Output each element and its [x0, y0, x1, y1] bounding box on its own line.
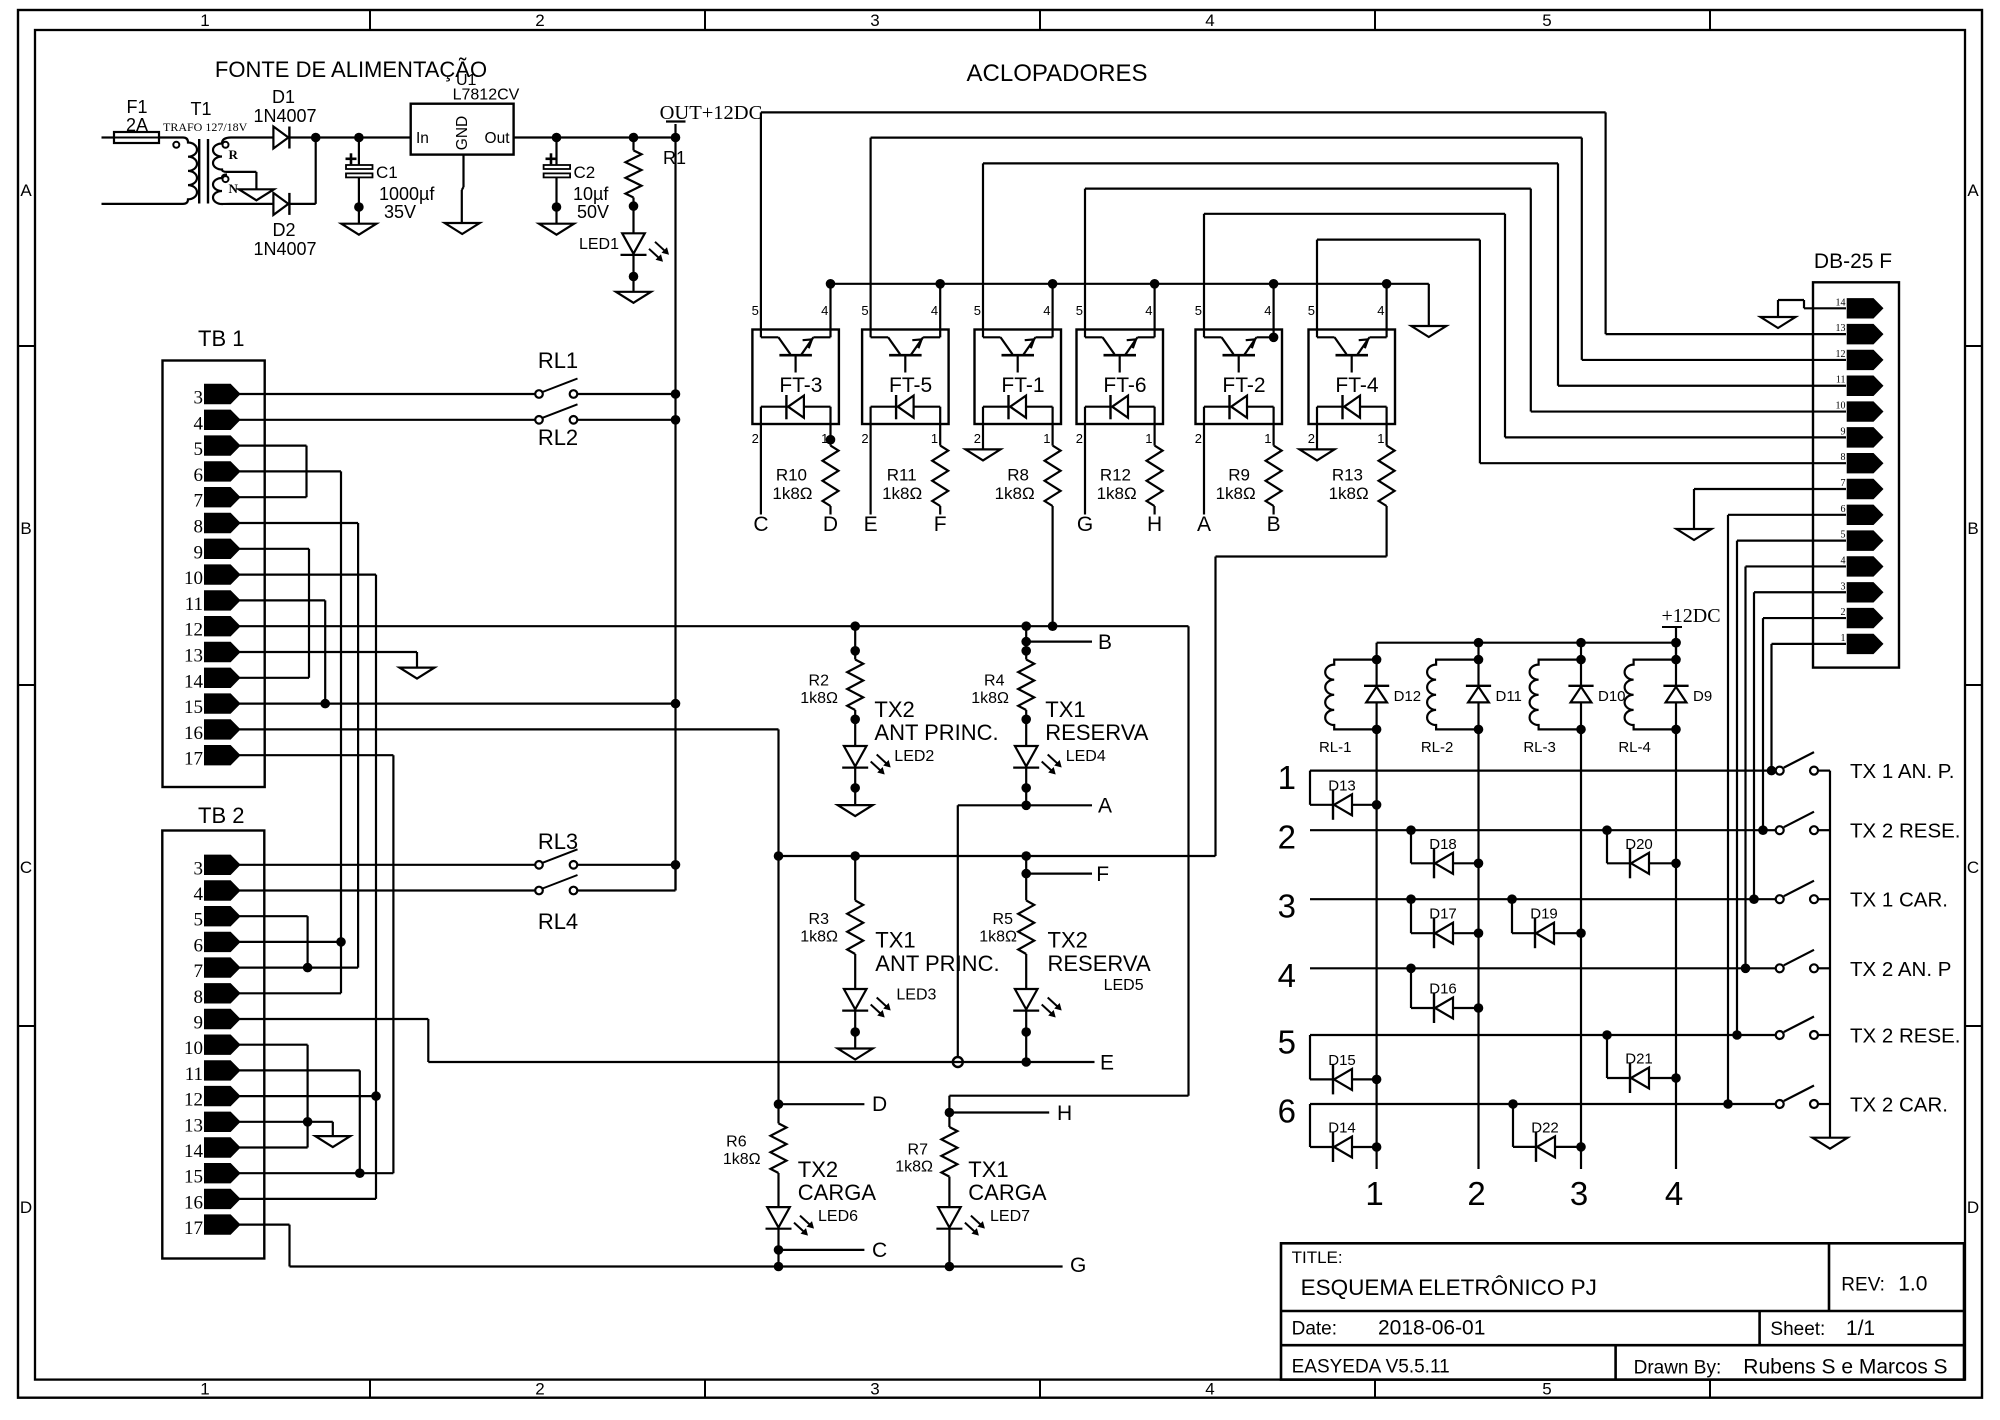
svg-text:4: 4: [931, 303, 938, 318]
relay contact RL4: [535, 887, 543, 895]
svg-text:6: 6: [1841, 504, 1846, 515]
ground LED3: [838, 1049, 873, 1060]
svg-text:1: 1: [1145, 431, 1152, 446]
wire +12DC tick down: [1675, 627, 1677, 660]
TB1 pin 7: [205, 488, 240, 507]
wire TB2 pin9 to row E: [239, 1018, 429, 1020]
wire R13 return to row R3: [1385, 506, 1387, 557]
optocoupler FT-4 transistor: [1316, 330, 1318, 338]
svg-text:2018-06-01: 2018-06-01: [1378, 1317, 1485, 1340]
DB-25 pin 5: [1847, 531, 1883, 550]
svg-text:D19: D19: [1530, 906, 1558, 923]
wire FT-3 pin 4 to bus: [829, 284, 831, 330]
switch row 2: [1776, 826, 1784, 834]
svg-text:R: R: [229, 147, 239, 162]
svg-text:GND: GND: [454, 116, 471, 150]
ground DB-25 pin 14: [1761, 317, 1796, 328]
junction unit bottom 4: [1671, 725, 1681, 735]
svg-text:RL2: RL2: [538, 425, 578, 450]
row D stub: [774, 1099, 784, 1109]
svg-text:R12: R12: [1100, 466, 1131, 485]
junction LED1 bottom: [629, 272, 639, 282]
svg-text:FT-6: FT-6: [1103, 374, 1146, 397]
junction R4 top: [1021, 621, 1031, 631]
svg-text:D: D: [1967, 1198, 1979, 1217]
svg-text:1.0: 1.0: [1898, 1273, 1927, 1296]
wire FT-3 pin 2 down: [760, 424, 762, 515]
svg-text:LED4: LED4: [1066, 748, 1106, 765]
resistor R10 1k8: [823, 446, 839, 506]
svg-text:RL4: RL4: [538, 909, 578, 934]
svg-text:Date:: Date:: [1292, 1319, 1337, 1340]
svg-text:10: 10: [184, 1038, 203, 1059]
TB2 pin 17: [205, 1215, 240, 1234]
svg-text:4: 4: [1377, 303, 1384, 318]
svg-text:EASYEDA V5.5.11: EASYEDA V5.5.11: [1292, 1357, 1450, 1378]
wire RL1 to +12 rail: [577, 393, 676, 395]
diode D17: [1410, 899, 1412, 933]
wire FT-1 pin 1 down: [1051, 424, 1053, 446]
TB2 pin 5: [205, 907, 240, 926]
junction D14 column: [1372, 1142, 1382, 1152]
svg-text:5: 5: [861, 303, 868, 318]
svg-text:RL3: RL3: [538, 829, 578, 854]
svg-text:C: C: [1967, 858, 1979, 877]
junction D17 row 3: [1406, 894, 1416, 904]
led LED7: [938, 1207, 961, 1227]
diode D1 1N4007: [273, 127, 288, 149]
svg-text:1k8Ω: 1k8Ω: [772, 484, 812, 503]
diode D16: [1410, 968, 1412, 1008]
svg-text:CARGA: CARGA: [798, 1180, 877, 1205]
svg-text:A: A: [20, 181, 32, 200]
svg-text:3: 3: [1278, 888, 1296, 925]
junction R1/LED1: [629, 201, 639, 211]
svg-text:13: 13: [184, 1115, 203, 1136]
svg-text:RL-2: RL-2: [1421, 739, 1454, 756]
optocoupler FT-2 pin 2 internal lead: [1203, 407, 1205, 424]
svg-text:REV:: REV:: [1841, 1275, 1885, 1296]
svg-text:B: B: [20, 519, 31, 538]
ground U1: [445, 223, 480, 234]
junction D16 row 4: [1406, 964, 1416, 974]
svg-text:7: 7: [194, 961, 204, 982]
optocoupler FT-5 internal LED: [895, 395, 897, 419]
svg-text:5: 5: [1076, 303, 1083, 318]
svg-text:1: 1: [1043, 431, 1050, 446]
svg-text:1k8Ω: 1k8Ω: [895, 1158, 933, 1175]
row E wire: [428, 1061, 1094, 1063]
optocoupler FT-3 transistor: [760, 330, 762, 338]
junction row 2 switch: [1758, 825, 1768, 835]
optocoupler FT-2 box: [1196, 330, 1283, 425]
wire TB1 pin5-pin7 bracket: [239, 445, 307, 447]
DB-25 pin 12: [1847, 350, 1883, 369]
resistor R2 1k8: [854, 626, 856, 659]
optocoupler FT-6 transistor: [1084, 330, 1086, 338]
wire rail drop column 3: [1580, 643, 1582, 660]
svg-text:15: 15: [184, 1167, 203, 1188]
wire FT-4 pin 1 down: [1385, 424, 1387, 446]
relay coil RL-3: [1530, 660, 1581, 730]
ground C1: [341, 224, 376, 235]
TB1 pin 10: [205, 565, 240, 584]
junction rail column 3: [1576, 638, 1586, 648]
svg-text:TX1: TX1: [968, 1157, 1008, 1182]
optocoupler FT-1 pin 2 internal lead: [982, 407, 984, 424]
DB-25 pin 9: [1847, 428, 1883, 447]
svg-text:FT-4: FT-4: [1335, 374, 1378, 397]
row G wire: [290, 1265, 1063, 1267]
TB1 pin 12: [205, 617, 240, 636]
resistor R7 1k8: [948, 1113, 950, 1128]
wire LED1 to ground: [632, 255, 634, 292]
svg-text:TX2: TX2: [874, 697, 914, 722]
svg-text:D11: D11: [1496, 688, 1522, 705]
junction FT-2 collector: [1269, 333, 1279, 343]
led LED5: [1015, 989, 1038, 1009]
ground C2: [539, 224, 574, 235]
wire net B corner down: [1187, 626, 1189, 1095]
svg-text:B: B: [1098, 631, 1112, 654]
wire FT-4 pin 2 down: [1316, 424, 1318, 449]
TB2 pin 13: [205, 1112, 240, 1131]
wire rail D1 to U1: [316, 136, 411, 138]
junction rail OUT: [671, 133, 681, 143]
junction row 1 switch: [1767, 766, 1777, 776]
led LED1: [622, 233, 645, 253]
svg-text:C1: C1: [376, 163, 398, 182]
wire AC input bottom: [102, 203, 184, 205]
svg-text:+12DC: +12DC: [1661, 605, 1720, 627]
wire TB1 pin10 down: [239, 573, 376, 575]
junction TB1 pin11/pin15: [320, 699, 330, 709]
wire TB1 pin16 long: [239, 728, 779, 730]
junction TB1 pin15 +12: [671, 699, 681, 709]
svg-text:5: 5: [752, 303, 759, 318]
junction LED5 row E: [1021, 1057, 1031, 1067]
svg-text:8: 8: [1841, 452, 1846, 463]
svg-text:3: 3: [870, 1380, 879, 1399]
junction C1 top: [354, 133, 364, 143]
svg-text:TX 1 AN. P.: TX 1 AN. P.: [1850, 760, 1954, 783]
wire FT-4 pin 4 to bus: [1385, 284, 1387, 330]
svg-text:D: D: [20, 1198, 32, 1217]
capacitor C2: [555, 138, 557, 166]
junction row 5 switch: [1732, 1030, 1742, 1040]
column TB1 pin16 down: [777, 729, 779, 1104]
row A stub: [958, 804, 1092, 806]
wire RL4 up to RL3 junction: [577, 889, 676, 891]
wire FT-2 pin 1 down: [1272, 424, 1274, 446]
TB1 pin 4: [205, 410, 240, 429]
svg-text:R9: R9: [1228, 466, 1250, 485]
wire RL3 to +12: [577, 864, 676, 866]
svg-text:15: 15: [184, 697, 203, 718]
DB-25 pin 4: [1847, 557, 1883, 576]
svg-text:FT-3: FT-3: [779, 374, 822, 397]
switch row 1: [1776, 767, 1784, 775]
svg-text:6: 6: [194, 465, 204, 486]
svg-text:1: 1: [931, 431, 938, 446]
rail relay coils: [1377, 642, 1676, 644]
svg-text:5: 5: [1542, 1380, 1551, 1399]
wire FT-6 pin 5 to DB-25: [1085, 188, 1531, 190]
wire FT-3 pin 1 down: [829, 424, 831, 446]
TB2 pin 10: [205, 1035, 240, 1054]
svg-text:FONTE DE ALIMENTAÇÃO: FONTE DE ALIMENTAÇÃO: [215, 57, 487, 82]
wire FT-5 pin 4 to bus: [939, 284, 941, 330]
relay coil RL-1: [1325, 660, 1376, 730]
svg-text:14: 14: [1836, 297, 1846, 308]
optocoupler FT-1 box: [975, 330, 1062, 425]
svg-text:R2: R2: [809, 673, 830, 690]
junction FT-1 pin 4 bus: [1048, 279, 1058, 289]
DB-25 pin 6: [1847, 505, 1883, 524]
TB1 pin 3: [205, 384, 240, 403]
junction C1 bottom: [354, 202, 364, 212]
relay contact RL3: [535, 861, 543, 869]
ground LED1: [616, 292, 651, 303]
svg-text:3: 3: [1570, 1175, 1588, 1212]
junction RL3 +12: [671, 860, 681, 870]
junction D19 column: [1576, 928, 1586, 938]
wire U1 GND down: [462, 155, 464, 187]
svg-text:D17: D17: [1429, 906, 1457, 923]
wire FT-6 pin 1 down: [1153, 424, 1155, 446]
svg-text:1k8Ω: 1k8Ω: [979, 929, 1017, 946]
relay contact RL2: [535, 416, 543, 424]
svg-text:1N4007: 1N4007: [253, 239, 316, 259]
wire TB2 pin4 to RL4: [239, 889, 536, 891]
svg-text:2: 2: [861, 431, 868, 446]
svg-text:1k8Ω: 1k8Ω: [800, 929, 838, 946]
wire TB1 pin12 net B row: [239, 625, 1189, 627]
svg-text:7: 7: [194, 491, 204, 512]
optocoupler FT-3 internal LED: [785, 395, 787, 419]
svg-text:1: 1: [200, 1380, 209, 1399]
svg-text:TX 2 CAR.: TX 2 CAR.: [1850, 1094, 1948, 1117]
svg-text:4: 4: [1264, 303, 1271, 318]
junction R5 top: [1021, 851, 1031, 861]
junction TB2 pin6: [336, 937, 346, 947]
ground DB-25 pin 7: [1677, 529, 1712, 540]
TB1 pin 17: [205, 746, 240, 765]
svg-text:4: 4: [1145, 303, 1152, 318]
junction unit bottom 3: [1576, 725, 1586, 735]
wire DB-25 pin 2 to matrix row 2: [1763, 617, 1846, 619]
DB-25 pin 3: [1847, 583, 1883, 602]
svg-text:D: D: [872, 1093, 887, 1116]
wire TB2 pin12: [239, 1095, 376, 1097]
TB1 pin 6: [205, 462, 240, 481]
TB1 pin 13: [205, 642, 240, 661]
TB1 pin 8: [205, 513, 240, 532]
svg-text:D16: D16: [1429, 981, 1457, 998]
junction +12DC rail: [1671, 638, 1681, 648]
junction RL1 +12: [671, 389, 681, 399]
resistor R1: [632, 138, 634, 151]
svg-text:R5: R5: [993, 911, 1014, 928]
svg-text:2: 2: [1076, 431, 1083, 446]
diode D2 1N4007: [273, 193, 288, 215]
junction FT-6 pin 4 bus: [1150, 279, 1160, 289]
svg-text:D: D: [823, 513, 838, 536]
junction LED7 row G: [945, 1262, 955, 1272]
svg-text:D9: D9: [1693, 688, 1712, 705]
wire center tap: [227, 171, 256, 173]
svg-text:TRAFO 127/18V: TRAFO 127/18V: [163, 120, 248, 134]
ground TB1 pin13: [400, 668, 435, 679]
svg-text:LED7: LED7: [990, 1208, 1030, 1225]
svg-text:F1: F1: [126, 97, 147, 117]
wire LED3 to ground: [854, 1011, 856, 1049]
svg-text:1: 1: [1365, 1175, 1383, 1212]
svg-text:D1: D1: [272, 87, 295, 107]
TB2 pin 3: [205, 855, 240, 874]
wire FT-3 pin 5 up: [760, 112, 762, 329]
svg-text:TX 1 CAR.: TX 1 CAR.: [1850, 889, 1948, 912]
optocoupler FT-6 box: [1077, 330, 1164, 425]
svg-text:C: C: [20, 858, 32, 877]
ground center tap: [239, 189, 274, 200]
diode D10: [1580, 660, 1582, 686]
DB-25 pin 7: [1847, 479, 1883, 498]
junction FT-3 pin1: [826, 435, 836, 445]
junction FT-3 pin 4 bus: [826, 279, 836, 289]
transformer T1 core: [198, 139, 200, 204]
wire secondary N to D2: [231, 203, 273, 205]
title block: [1281, 1243, 1964, 1379]
wire FT-1 pin 5 up: [982, 163, 984, 329]
wire C2 to ground: [555, 207, 557, 224]
led LED6: [767, 1207, 790, 1227]
svg-text:4: 4: [1205, 1380, 1214, 1399]
wire FT-4 pin 5 to DB-25: [1317, 239, 1480, 241]
svg-text:4: 4: [194, 884, 204, 905]
optocoupler FT-6 pin 1 internal lead: [1153, 407, 1155, 424]
wire secondary R to D1: [231, 136, 273, 138]
net label stub B: [1021, 637, 1031, 647]
svg-text:5: 5: [1195, 303, 1202, 318]
wire FT-4 pin 5 up: [1316, 240, 1318, 330]
TB2 pin 12: [205, 1086, 240, 1105]
svg-text:1k8Ω: 1k8Ω: [1216, 484, 1256, 503]
svg-text:4: 4: [1278, 957, 1296, 994]
bus optocoupler emitters: [831, 283, 1429, 285]
svg-text:D15: D15: [1328, 1052, 1356, 1069]
relay coil RL-4: [1625, 660, 1676, 730]
svg-text:R13: R13: [1332, 466, 1363, 485]
wire DB-25 pin 6 to matrix row 6: [1728, 514, 1846, 516]
svg-text:D13: D13: [1328, 777, 1356, 794]
svg-text:2: 2: [1195, 431, 1202, 446]
resistor R4 1k8: [1025, 626, 1027, 659]
junction FT-2 pin 4 bus: [1269, 279, 1279, 289]
svg-text:5: 5: [1308, 303, 1315, 318]
optocoupler FT-5 pin 2 internal lead: [869, 407, 871, 424]
wire FT-1 pin 2 down: [982, 424, 984, 449]
svg-text:RESERVA: RESERVA: [1048, 951, 1151, 976]
diode D20: [1606, 830, 1608, 863]
wire FT-5 pin 1 down: [939, 424, 941, 446]
resistor R6 1k8: [777, 1104, 779, 1123]
svg-text:4: 4: [1205, 11, 1214, 30]
svg-text:D14: D14: [1328, 1120, 1356, 1137]
svg-text:13: 13: [1836, 323, 1846, 334]
DB-25 pin 2: [1847, 608, 1883, 627]
svg-text:T1: T1: [190, 99, 211, 119]
svg-text:R10: R10: [776, 466, 807, 485]
svg-text:RL1: RL1: [538, 348, 578, 373]
svg-text:LED2: LED2: [894, 748, 934, 765]
wire TB2 pin16: [239, 1198, 376, 1200]
wire FT-5 pin 5 up: [869, 138, 871, 330]
diode D11: [1477, 660, 1479, 686]
svg-text:Rubens S e Marcos S: Rubens S e Marcos S: [1743, 1356, 1947, 1379]
junction D18 column: [1474, 859, 1484, 869]
resistor R8 1k8: [1045, 446, 1061, 506]
junction D13 column: [1372, 800, 1382, 810]
resistor R3 1k8: [854, 856, 856, 900]
optocoupler FT-4 pin 2 internal lead: [1316, 407, 1318, 424]
svg-text:3: 3: [870, 11, 879, 30]
svg-text:6: 6: [1278, 1093, 1296, 1130]
wire D1 to junction: [290, 136, 316, 138]
junction R1 top: [629, 133, 639, 143]
wire +12 vertical down to RL contacts: [674, 138, 676, 891]
junction C2 top: [552, 133, 562, 143]
TB2 pin 15: [205, 1164, 240, 1183]
svg-text:R3: R3: [809, 911, 830, 928]
svg-text:1: 1: [200, 11, 209, 30]
svg-text:LED1: LED1: [579, 236, 619, 253]
plus sign C1: [346, 158, 357, 161]
diode D19: [1511, 899, 1513, 933]
wire TB1 pin6 down: [239, 470, 341, 472]
svg-text:TX1: TX1: [875, 928, 915, 953]
diode D14: [1309, 1104, 1311, 1147]
wire LED5 to row E: [1025, 1011, 1027, 1062]
diode D13: [1309, 771, 1311, 805]
svg-text:In: In: [416, 130, 429, 147]
TB2 pin 8: [205, 984, 240, 1003]
svg-text:H: H: [1057, 1102, 1072, 1125]
junction rail column 4: [1671, 638, 1681, 648]
optocoupler FT-5 box: [862, 330, 949, 425]
optocoupler FT-3 pin 1 internal lead: [829, 407, 831, 424]
junction FT-5 pin 4 bus: [935, 279, 945, 289]
svg-text:A: A: [1098, 795, 1112, 818]
junction C2 bottom: [552, 202, 562, 212]
svg-text:14: 14: [184, 1141, 204, 1162]
row R3 wire: [779, 855, 1216, 857]
svg-text:1k8Ω: 1k8Ω: [995, 484, 1035, 503]
TB2 pin 11: [205, 1061, 240, 1080]
row H stub: [945, 1108, 955, 1118]
DB-25 pin 14: [1847, 299, 1883, 318]
wire U1 out to rail right: [514, 136, 676, 138]
svg-text:FT-2: FT-2: [1222, 374, 1265, 397]
wire TB2 pin10-pin14 bracket: [239, 1044, 308, 1046]
wire net B horizontal to R7 column: [949, 1095, 1188, 1097]
svg-text:11: 11: [185, 1064, 203, 1085]
svg-text:G: G: [1070, 1254, 1086, 1277]
svg-text:12: 12: [1836, 349, 1846, 360]
relay coil RL-2: [1427, 660, 1478, 730]
svg-text:10: 10: [184, 568, 203, 589]
transformer polarity dot N: [223, 176, 229, 182]
